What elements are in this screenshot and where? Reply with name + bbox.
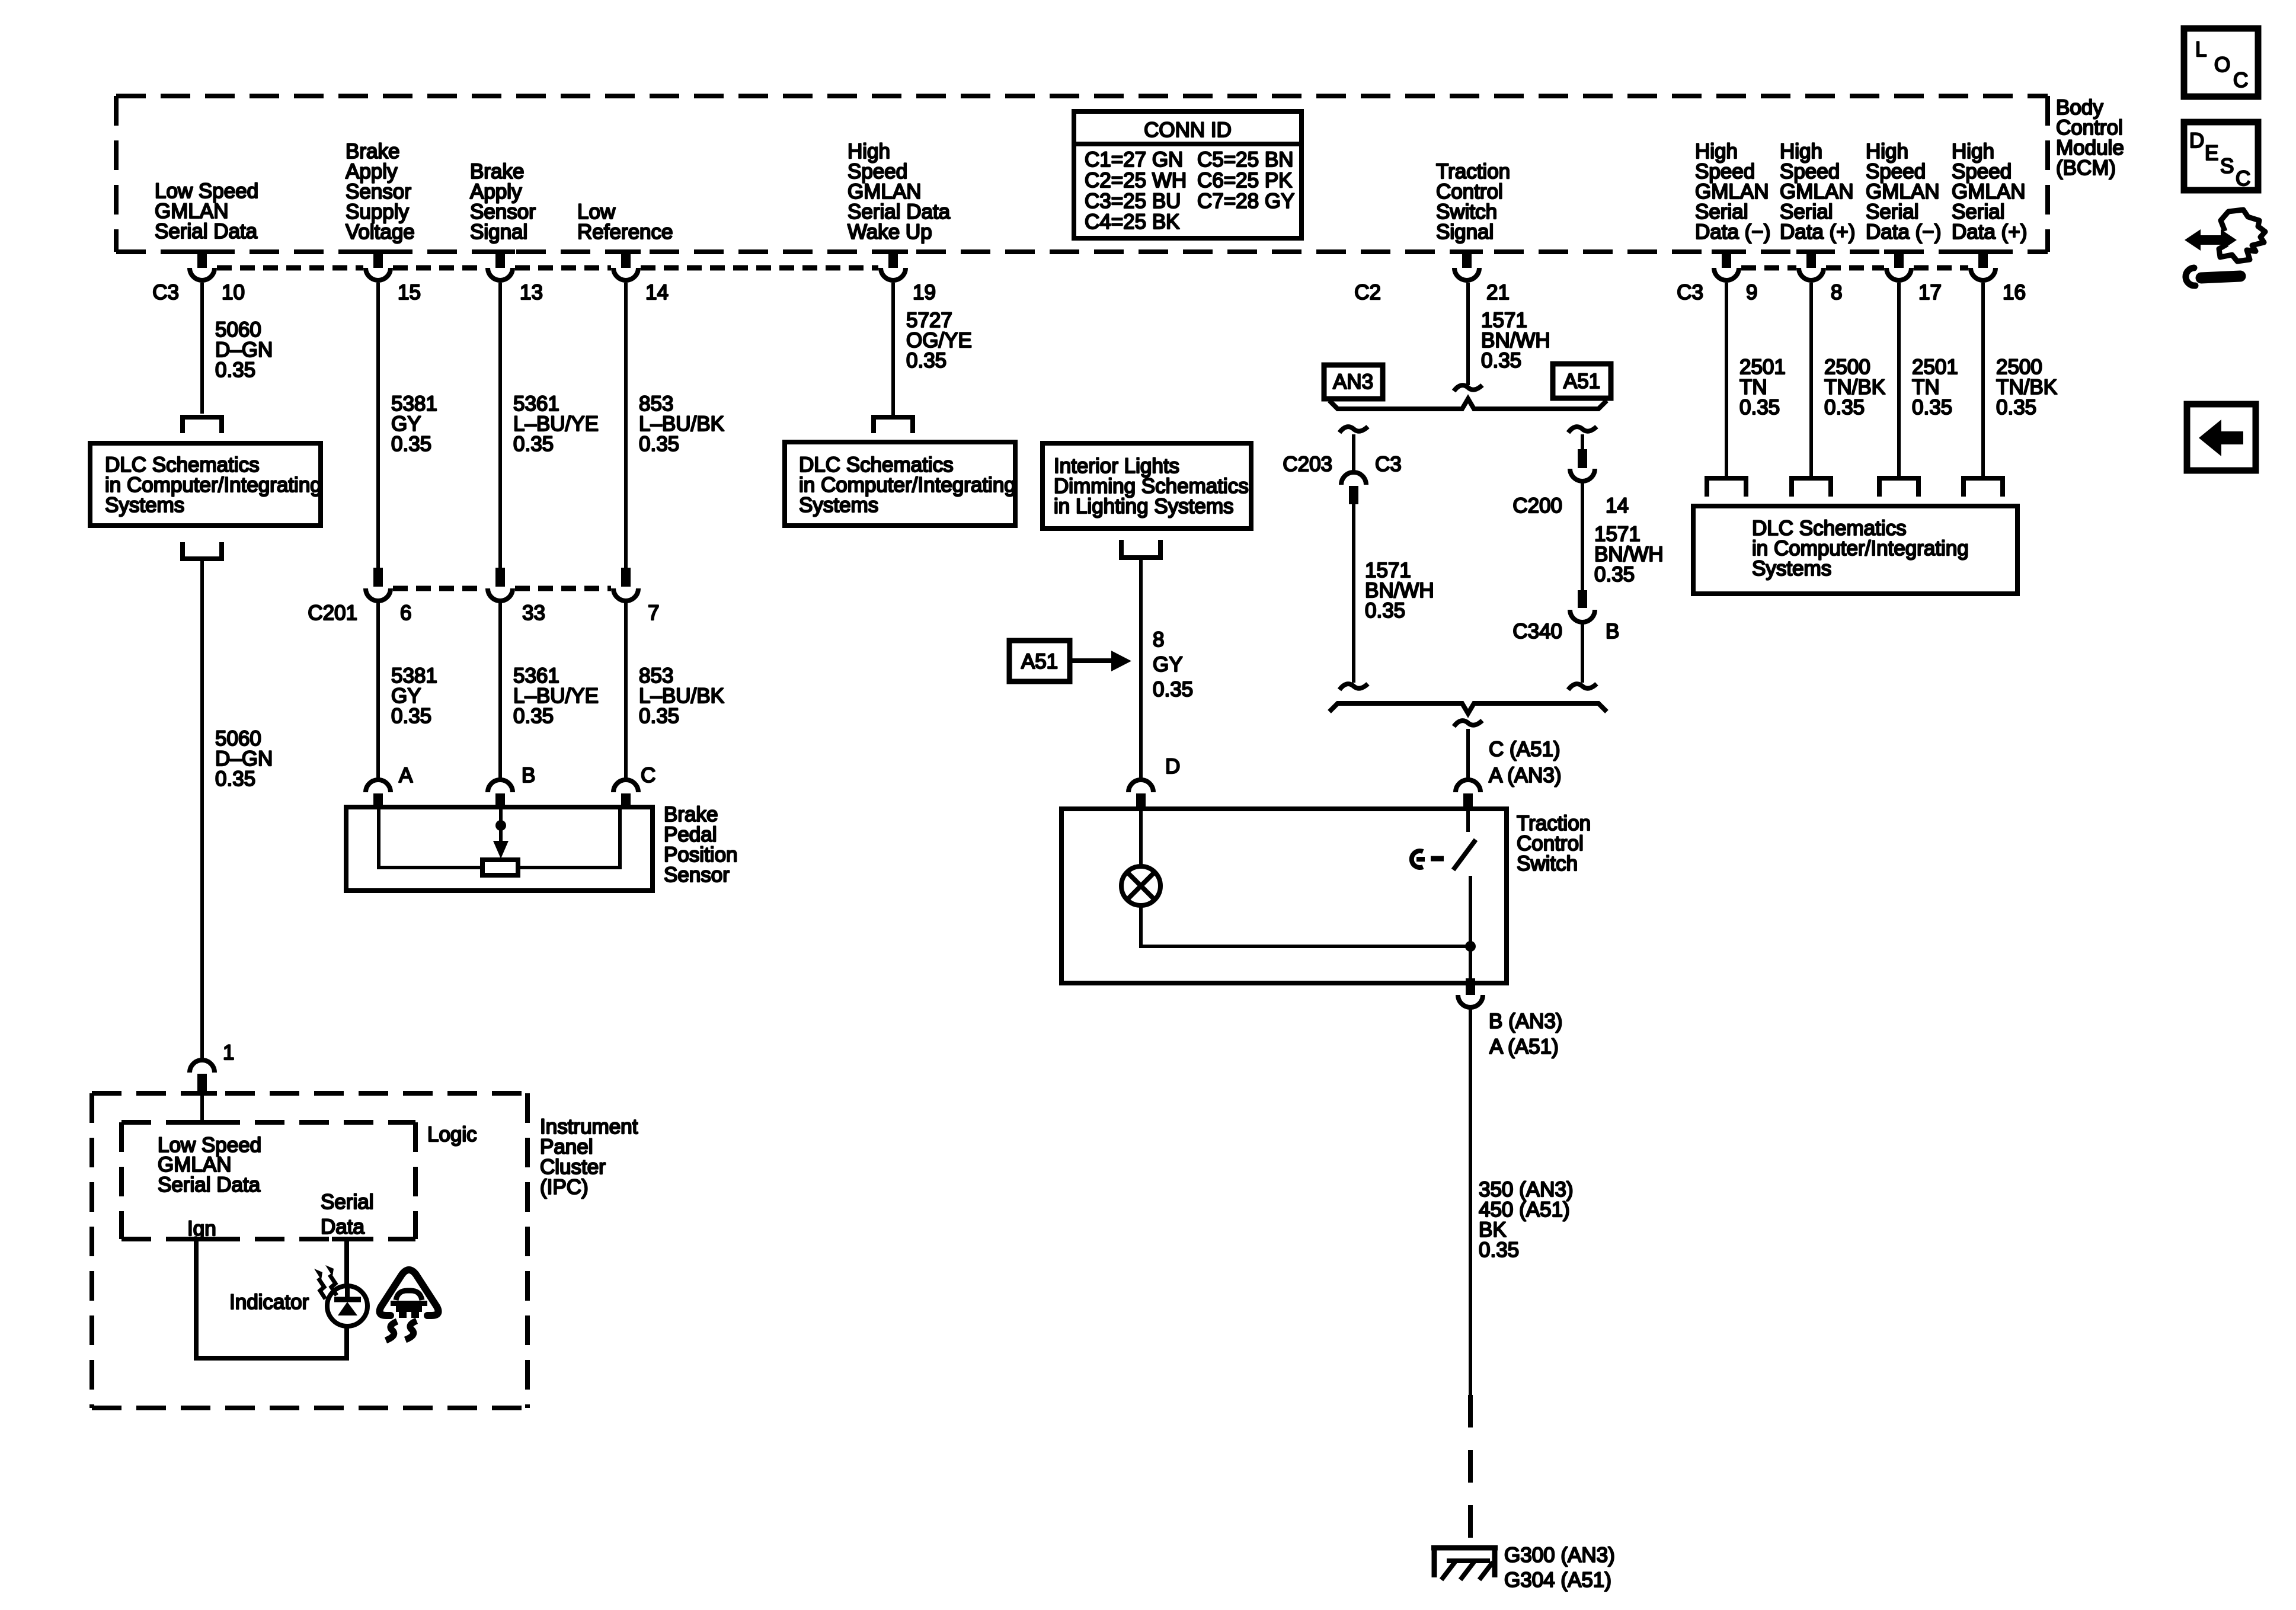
table CONN ID xyxy=(1074,111,1302,238)
svg-text:0.35: 0.35 xyxy=(1996,396,2036,419)
wire 5361 lower segment to sensor pin B xyxy=(498,602,502,781)
svg-text:E: E xyxy=(2205,142,2218,165)
svg-text:C: C xyxy=(641,764,655,787)
wire 15 5381 upper segment xyxy=(376,283,380,569)
pin 19 connector at BCM xyxy=(881,250,906,280)
svg-text:A51: A51 xyxy=(1563,370,1600,393)
pin 9 connector at BCM (C3) xyxy=(1714,250,1739,280)
svg-text:C3: C3 xyxy=(1375,453,1402,476)
LED emission arrows xyxy=(314,1265,337,1299)
indicator LED circle with diode xyxy=(327,1286,367,1326)
module box Instrument Panel Cluster (IPC) dashed outline xyxy=(92,1093,527,1408)
wire Serial Data from logic block to indicator xyxy=(344,1239,349,1287)
svg-text:S: S xyxy=(2220,155,2234,178)
svg-text:8: 8 xyxy=(1831,281,1842,304)
wire 2501 TN from pin 17 xyxy=(1897,283,1901,477)
svg-text:6: 6 xyxy=(400,601,411,625)
svg-text:0.35: 0.35 xyxy=(1824,396,1865,419)
svg-text:0.35: 0.35 xyxy=(1739,396,1780,419)
wire 853 lower segment to sensor pin C xyxy=(624,602,628,781)
wire 2501 TN from pin 9 xyxy=(1725,283,1728,477)
svg-text:9: 9 xyxy=(1746,281,1757,304)
svg-text:Data (−): Data (−) xyxy=(1866,220,1941,244)
svg-text:0.35: 0.35 xyxy=(391,705,431,728)
svg-text:A (A51): A (A51) xyxy=(1489,1035,1559,1058)
svg-text:Logic: Logic xyxy=(427,1123,477,1146)
svg-text:1: 1 xyxy=(223,1041,234,1064)
svg-text:0.35: 0.35 xyxy=(1365,599,1405,622)
svg-text:Signal: Signal xyxy=(470,220,527,244)
svg-text:G300 (AN3): G300 (AN3) xyxy=(1504,1544,1615,1567)
svg-text:Voltage: Voltage xyxy=(346,220,415,244)
svg-text:Data: Data xyxy=(321,1215,364,1238)
svg-text:0.35: 0.35 xyxy=(513,433,554,456)
wire 13 5361 upper segment xyxy=(498,283,502,569)
harness option box AN3 xyxy=(1324,365,1383,399)
svg-text:Sensor: Sensor xyxy=(664,863,730,886)
svg-text:B: B xyxy=(1606,620,1619,643)
ground symbol G300/G304 xyxy=(1431,1545,1498,1580)
svg-text:B (AN3): B (AN3) xyxy=(1489,1010,1562,1033)
svg-text:C203: C203 xyxy=(1283,453,1332,476)
svg-text:C5=25 BN: C5=25 BN xyxy=(1197,148,1293,171)
svg-text:0.35: 0.35 xyxy=(215,767,255,790)
potentiometer resistive element xyxy=(482,860,518,875)
wire from merge to switch pin C/A xyxy=(1466,729,1470,781)
svg-text:0.35: 0.35 xyxy=(1594,563,1635,586)
svg-text:D: D xyxy=(2189,129,2204,152)
connector row dotted harness line C201 xyxy=(393,586,611,591)
sidebar icon box DESC xyxy=(2184,122,2258,190)
component box Brake Pedal Position Sensor xyxy=(346,807,653,891)
reference box Interior Lights Dimming Schematics in Lighting Systems xyxy=(1043,443,1251,529)
svg-text:Signal: Signal xyxy=(1436,220,1494,244)
switch detent symbol xyxy=(1412,851,1444,868)
wire from pin D to lamp xyxy=(1139,811,1143,866)
svg-text:C7=28 GY: C7=28 GY xyxy=(1197,190,1294,213)
svg-text:Reference: Reference xyxy=(577,220,673,244)
svg-text:B: B xyxy=(522,764,535,787)
svg-text:C2=25 WH: C2=25 WH xyxy=(1085,169,1187,192)
wire from pin 1 into logic block xyxy=(200,1093,204,1120)
pin 21 connector at BCM (C2) xyxy=(1454,250,1479,280)
dash anchors at wire attachments on IPC edges xyxy=(181,1093,362,1239)
svg-text:L: L xyxy=(2195,38,2207,61)
svg-text:Systems: Systems xyxy=(799,494,878,517)
svg-text:C200: C200 xyxy=(1512,494,1562,517)
wire 5060 D-GN from DLC reference to IPC pin 1 xyxy=(200,559,204,1060)
svg-text:Switch: Switch xyxy=(1517,852,1578,875)
wire A51 branch lower xyxy=(1581,623,1584,683)
wire 1571 BN/WH AN3 branch lower xyxy=(1352,504,1355,683)
svg-text:C3: C3 xyxy=(1677,281,1703,304)
module box Body Control Module (BCM) dashed outline xyxy=(116,96,2048,252)
wire break tilde top of A51 branch xyxy=(1568,427,1597,433)
switch pin C/A connector xyxy=(1456,780,1480,811)
off-page staple pin 8 into DLC box 3 xyxy=(1792,478,1831,497)
off-page staple into DLC Schematics box 1 xyxy=(183,417,222,433)
svg-text:Wake Up: Wake Up xyxy=(848,220,932,244)
wire 5381 lower segment to sensor pin A xyxy=(376,602,380,781)
harness split brace (upper) xyxy=(1329,399,1607,409)
svg-text:Serial Data: Serial Data xyxy=(158,1173,261,1196)
svg-text:GY: GY xyxy=(1153,653,1183,676)
wire 1571 BN/WH from pin 21 xyxy=(1466,283,1470,385)
svg-text:A: A xyxy=(399,764,413,787)
harness merge brace (lower) xyxy=(1329,703,1607,713)
svg-text:C6=25 PK: C6=25 PK xyxy=(1197,169,1293,192)
wire 8 GY from Interior Lights reference to switch pin D xyxy=(1139,558,1143,781)
svg-text:CONN ID: CONN ID xyxy=(1144,119,1232,142)
sidebar icon back arrow box xyxy=(2187,404,2256,470)
off-page staple out of DLC Schematics box 1 xyxy=(183,542,222,559)
off-page staple pin 9 into DLC box 3 xyxy=(1707,478,1746,497)
in-line connector C201 pin 33 xyxy=(488,568,513,601)
wire from switch blade to junction and box bottom xyxy=(1469,876,1472,983)
svg-text:0.35: 0.35 xyxy=(1153,678,1193,701)
wire AN3 branch upper xyxy=(1352,434,1355,471)
wire 5060 D-GN from pin 10 to DLC reference xyxy=(200,283,204,414)
svg-text:C340: C340 xyxy=(1512,620,1562,643)
pin 1 connector into IPC xyxy=(190,1060,215,1093)
svg-text:15: 15 xyxy=(398,281,421,304)
svg-text:C3: C3 xyxy=(152,281,179,304)
pin 8 connector at BCM xyxy=(1799,250,1824,280)
svg-text:8: 8 xyxy=(1153,628,1164,651)
svg-text:0.35: 0.35 xyxy=(391,433,431,456)
reference box DLC Schematics in Computer/Integrating Systems (left) xyxy=(90,443,322,526)
wire 1571 BN/WH A51 branch middle xyxy=(1581,482,1584,591)
svg-text:C (A51): C (A51) xyxy=(1489,738,1560,761)
svg-text:AN3: AN3 xyxy=(1333,370,1373,393)
junction node at switch output xyxy=(1465,941,1476,952)
svg-text:17: 17 xyxy=(1918,281,1942,304)
connector row dotted harness line BCM C3 left group xyxy=(217,265,878,271)
wire break tilde top of AN3 branch xyxy=(1339,427,1368,433)
wire Ign from logic block xyxy=(196,1239,347,1358)
svg-text:0.35: 0.35 xyxy=(1479,1238,1519,1262)
svg-text:0.35: 0.35 xyxy=(906,349,946,372)
wire break tilde bottom of A51 branch xyxy=(1568,684,1597,690)
svg-text:C3=25 BU: C3=25 BU xyxy=(1085,190,1181,213)
pin 10 connector at BCM (C3) xyxy=(190,250,215,280)
sensor pin A connector xyxy=(366,780,391,809)
sensor pin B connector xyxy=(488,780,513,809)
svg-text:0.35: 0.35 xyxy=(639,705,679,728)
svg-text:C: C xyxy=(2233,69,2248,92)
svg-text:A (AN3): A (AN3) xyxy=(1489,764,1562,787)
wire switch pole from pin C/A xyxy=(1466,811,1470,832)
svg-text:13: 13 xyxy=(520,281,543,304)
in-line connector C203 (pin C3) xyxy=(1341,472,1366,504)
svg-text:0.35: 0.35 xyxy=(1912,396,1952,419)
sensor pin C connector xyxy=(613,780,638,809)
traction warning icon (car in triangle with skid marks) xyxy=(379,1270,438,1340)
sidebar icon box LOC xyxy=(2184,28,2258,97)
svg-text:Serial: Serial xyxy=(321,1190,373,1214)
in-line connector C201 pin 6 xyxy=(366,568,391,601)
logic block dashed outline inside IPC xyxy=(121,1122,415,1239)
connector row dotted harness line BCM C3 right group xyxy=(1741,265,1968,271)
svg-text:O: O xyxy=(2214,53,2230,76)
wire break tilde bottom of AN3 branch xyxy=(1339,684,1368,690)
svg-text:C1=27 GN: C1=27 GN xyxy=(1085,148,1183,171)
pin 16 connector at BCM xyxy=(1971,250,1996,280)
harness reference box A51 with arrow xyxy=(1009,641,1070,681)
wire inside sensor from pin A xyxy=(379,809,482,868)
svg-text:33: 33 xyxy=(522,601,545,625)
svg-text:Data (+): Data (+) xyxy=(1952,220,2027,244)
dash anchors on BCM bottom edge at pin stubs xyxy=(187,249,1998,254)
svg-text:Ign: Ign xyxy=(187,1217,216,1240)
svg-text:Serial Data: Serial Data xyxy=(155,220,258,243)
off-page staple pin 16 into DLC box 3 xyxy=(1964,478,2003,497)
pin 13 connector at BCM xyxy=(488,250,513,280)
svg-text:in Lighting Systems: in Lighting Systems xyxy=(1054,495,1233,518)
potentiometer wiper arrow xyxy=(499,825,503,846)
svg-text:C2: C2 xyxy=(1354,281,1381,304)
in-line connector C200 (pin 14) xyxy=(1570,449,1595,481)
svg-text:10: 10 xyxy=(222,281,245,304)
svg-text:Systems: Systems xyxy=(1752,557,1831,580)
wire break tilde below lower brace xyxy=(1454,721,1482,726)
svg-text:D: D xyxy=(1165,755,1180,778)
wire inside sensor from pin C xyxy=(518,809,620,868)
svg-text:C4=25 BK: C4=25 BK xyxy=(1085,210,1180,233)
lamp indicator (circle with X) inside switch xyxy=(1121,866,1160,905)
svg-text:(IPC): (IPC) xyxy=(540,1176,589,1199)
svg-text:Data (+): Data (+) xyxy=(1780,220,1855,244)
svg-text:(BCM): (BCM) xyxy=(2056,156,2116,180)
svg-text:C: C xyxy=(2236,167,2250,190)
switch pin D connector xyxy=(1128,780,1153,811)
pin 14 connector at BCM xyxy=(613,250,638,280)
pin 17 connector at BCM xyxy=(1886,250,1911,280)
svg-text:Data (−): Data (−) xyxy=(1695,220,1770,244)
svg-text:19: 19 xyxy=(913,281,936,304)
svg-text:Indicator: Indicator xyxy=(229,1291,309,1314)
wire 350/450 BK to ground (solid part) xyxy=(1469,1009,1472,1395)
svg-text:14: 14 xyxy=(1606,494,1629,517)
svg-text:0.35: 0.35 xyxy=(513,705,554,728)
svg-text:G304 (A51): G304 (A51) xyxy=(1504,1569,1611,1592)
reference box DLC Schematics in Computer/Integrating Systems (right) xyxy=(1693,506,2017,594)
wire 5727 OG/YE from pin 19 xyxy=(891,283,895,415)
in-line connector C340 (pin B) xyxy=(1570,590,1595,622)
in-line connector C201 pin 7 xyxy=(613,568,638,601)
off-page staple pin 17 into DLC box 3 xyxy=(1879,478,1918,497)
svg-text:C201: C201 xyxy=(308,601,357,625)
svg-text:0.35: 0.35 xyxy=(639,433,679,456)
harness option box A51 xyxy=(1553,364,1611,398)
wire A51 branch upper xyxy=(1581,434,1584,450)
wire break tilde below pin 21 wire xyxy=(1454,385,1482,391)
svg-text:A51: A51 xyxy=(1021,650,1058,673)
component box Traction Control Switch xyxy=(1061,809,1507,983)
svg-text:Systems: Systems xyxy=(105,494,184,517)
pin B/A connector below switch box xyxy=(1458,978,1483,1007)
wire 14 853 upper segment xyxy=(624,283,628,569)
sidebar icon diagnostic pointer with wrench xyxy=(2185,210,2265,286)
off-page staple out of Interior Lights box xyxy=(1121,540,1160,558)
reference box DLC Schematics in Computer/Integrating Systems (middle) xyxy=(785,442,1016,526)
wire from LED to Ign return xyxy=(344,1326,349,1361)
svg-text:7: 7 xyxy=(648,601,659,625)
wire inside sensor from pin B to wiper xyxy=(499,809,503,844)
wire 2500 TN/BK from pin 8 xyxy=(1809,283,1813,477)
wire from lamp to junction xyxy=(1141,905,1470,946)
switch blade xyxy=(1453,840,1476,870)
svg-text:16: 16 xyxy=(2003,281,2026,304)
off-page staple into DLC Schematics box 2 xyxy=(874,417,913,433)
pin 15 connector at BCM xyxy=(366,250,391,280)
junction node on sensor pin B wire xyxy=(495,820,506,831)
wire to ground (dashed part) xyxy=(1468,1395,1473,1541)
svg-text:21: 21 xyxy=(1486,281,1510,304)
wire 2500 TN/BK from pin 16 xyxy=(1981,283,1985,477)
arrow from A51 box to wire 8 xyxy=(1070,651,1131,671)
svg-text:0.35: 0.35 xyxy=(215,359,255,382)
svg-text:14: 14 xyxy=(645,281,669,304)
svg-text:0.35: 0.35 xyxy=(1481,349,1521,372)
